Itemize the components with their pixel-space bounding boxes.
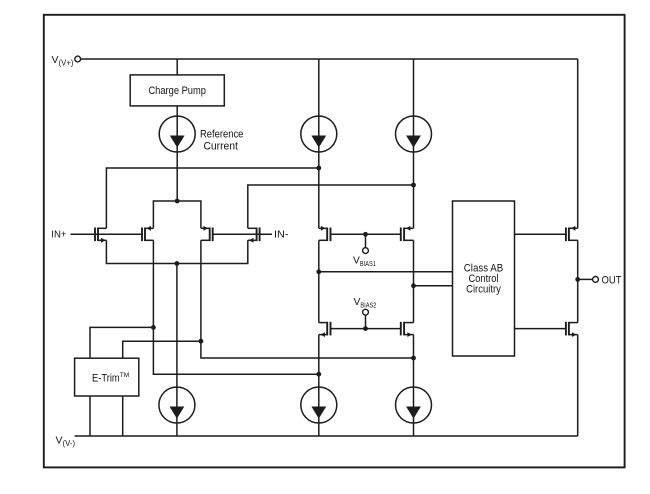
wire V+ rail to Q9 <box>577 59 579 228</box>
E-Trim block <box>75 358 139 396</box>
wire inner pair common source <box>153 201 201 228</box>
wire outer pair tail <box>106 240 247 263</box>
junction Q3 source / E-Trim <box>199 339 204 344</box>
current source I6 <box>396 387 432 423</box>
node IN+ label <box>51 229 66 241</box>
svg-text:VBIAS2: VBIAS2 <box>354 297 377 309</box>
wire IN+ gate <box>71 233 143 235</box>
svg-text:IN-: IN- <box>274 229 289 241</box>
junction drain wire / I3 column <box>411 183 416 188</box>
wire Q6 drain column <box>413 240 415 322</box>
wire Q5 drain column <box>318 240 320 322</box>
terminal V(V+) <box>52 54 81 68</box>
junction OUT node <box>575 277 580 282</box>
wire E-Trim to V- rail 2 <box>122 396 124 436</box>
junction VBIAS2 stub <box>363 326 368 331</box>
svg-text:V(V+): V(V+) <box>52 54 74 68</box>
transistor Q6 (top cascode right) <box>401 226 414 241</box>
wire V+ rail to current source I3 <box>413 59 415 228</box>
svg-text:E-TrimTM: E-TrimTM <box>92 372 129 384</box>
class AB control block U1 <box>453 201 515 356</box>
current source I3 <box>396 116 432 152</box>
charge pump block <box>130 75 224 106</box>
transistor Q4 (IN- input) <box>248 228 260 243</box>
junction Q2 source / E-Trim <box>151 325 156 330</box>
wire V+ rail to charge pump <box>176 59 178 75</box>
current source I1 (reference current) <box>159 116 243 153</box>
wire E-Trim to V- rail 1 <box>89 396 91 436</box>
svg-text:VBIAS1: VBIAS1 <box>353 256 376 268</box>
svg-text:Circuitry: Circuitry <box>466 283 501 295</box>
wire Q8 to current source I6 <box>413 335 415 436</box>
transistor Q9 (output PMOS) <box>566 226 578 241</box>
transistor Q8 (bottom cascode right) <box>401 322 414 337</box>
wire Q2 source down <box>153 240 318 374</box>
wire Q9 drain to Q10 drain <box>577 240 579 322</box>
svg-text:Current: Current <box>203 141 238 153</box>
junction inner pair tail node <box>175 199 180 204</box>
svg-text:Reference: Reference <box>200 129 244 141</box>
terminal OUT <box>593 274 622 286</box>
wire E-Trim input 2 <box>123 341 201 358</box>
transistor Q10 (output NMOS) <box>566 322 578 337</box>
current source I2 <box>301 116 337 152</box>
svg-text:V(V-): V(V-) <box>56 435 76 449</box>
wire VBIAS1 stub <box>365 234 367 247</box>
wire top V+ rail <box>81 58 578 60</box>
wire charge pump to reference current source <box>176 106 178 201</box>
wire V+ rail to current source I2 <box>318 59 320 228</box>
wire Q4 drain to I3 column <box>248 185 414 228</box>
current source I4 (input tail) <box>159 387 195 423</box>
current source I5 <box>301 387 337 423</box>
wire OUT stub <box>578 278 593 280</box>
junction tail node <box>175 261 180 266</box>
junction Q6 drain / class AB <box>411 283 416 288</box>
svg-text:OUT: OUT <box>602 274 622 286</box>
junction wire / I5 column <box>316 372 321 377</box>
transistor Q7 (bottom cascode left) <box>319 322 331 337</box>
junction Q5 drain / class AB <box>316 269 321 274</box>
transistor Q3 (inner pair right) <box>201 226 213 241</box>
wire Q10 source to V- rail <box>577 335 579 436</box>
terminal VBIAS2 <box>354 297 377 315</box>
wire to class AB input 1 <box>319 271 453 273</box>
wire VBIAS2 gates <box>331 328 401 330</box>
wire tail to bottom current source I4 <box>176 264 178 437</box>
wire Q3 source down <box>201 240 414 358</box>
wire Q1 drain to I2 column <box>106 168 318 228</box>
junction wire / I6 column <box>411 356 416 361</box>
wire class AB to Q9 gate <box>515 233 566 235</box>
terminal VBIAS1 <box>353 248 376 268</box>
wire VBIAS2 stub <box>365 315 367 328</box>
svg-text:Charge Pump: Charge Pump <box>148 85 206 97</box>
wire E-Trim input 1 <box>90 327 153 358</box>
transistor Q1 (IN+ input) <box>95 228 106 243</box>
wire VBIAS1 gates <box>331 233 401 235</box>
wire to class AB input 2 <box>414 285 453 287</box>
junction VBIAS1 stub <box>363 232 368 237</box>
junction drain wire / I2 column <box>316 166 321 171</box>
svg-text:IN+: IN+ <box>51 229 66 241</box>
wire class AB to Q10 gate <box>515 328 566 330</box>
wire IN- gate <box>213 233 272 235</box>
transistor Q2 (inner pair left) <box>142 226 153 241</box>
node IN- label <box>274 229 289 241</box>
node V(V-) label <box>56 435 76 449</box>
wire Q7 to current source I5 <box>318 335 320 436</box>
transistor Q5 (top cascode left) <box>319 226 331 241</box>
wire bottom V- rail <box>75 435 578 437</box>
